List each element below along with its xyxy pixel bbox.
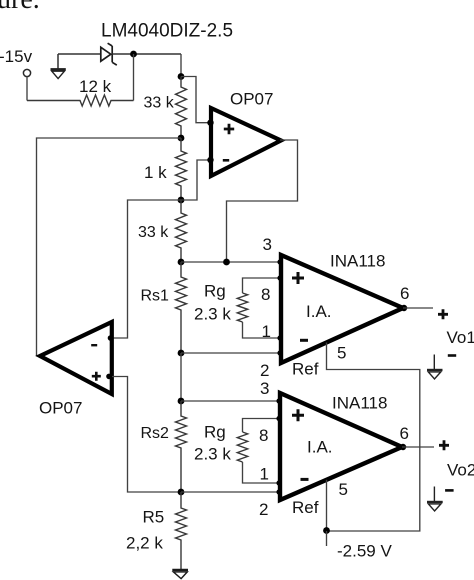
node dot bus/33k top [178, 73, 185, 80]
svg-text:INA118: INA118 [332, 394, 387, 413]
pin connection dots INA1 [277, 259, 282, 355]
wire INA1 pin 8 to Rg [243, 278, 282, 293]
svg-text:Vo2: Vo2 [447, 461, 474, 480]
node dot 33k/1k junction [178, 135, 185, 142]
svg-text:Vo1: Vo1 [447, 328, 474, 347]
wire bus segment 353-401 [180, 353, 182, 401]
pin connection dots INA2 [276, 398, 281, 494]
node dot Rs2/R5 junction [178, 489, 185, 496]
wire ground to diode anode [58, 53, 101, 55]
svg-text:1: 1 [260, 465, 269, 484]
wire node to INA118 #2 pin 2 [181, 491, 280, 493]
zener diode LM4040DIZ-2.5 [101, 43, 117, 65]
junction dot feedback/pin3 wire [223, 259, 230, 266]
svg-text:Ref: Ref [292, 360, 319, 379]
instrumentation amp U4 INA118 (lower) [280, 393, 402, 500]
node dot OP07 + input [207, 120, 213, 126]
node dot 1k/33k junction [178, 197, 185, 204]
svg-text:33 k: 33 k [138, 224, 169, 241]
svg-text:2,2 k: 2,2 k [126, 534, 163, 553]
wire Rg to INA1 pin 1 [243, 322, 282, 338]
wire feedback node to left OP07 output [37, 138, 182, 356]
plus sign INA1 [292, 272, 304, 284]
svg-text:Rs1: Rs1 [141, 288, 170, 305]
svg-text:-15v: -15v [0, 47, 33, 66]
svg-text:R5: R5 [143, 508, 165, 527]
ground (Vo2) [427, 487, 443, 512]
svg-text:ure.: ure. [0, 0, 40, 15]
svg-text:2: 2 [260, 361, 269, 380]
wire from -15v terminal down [26, 77, 28, 101]
terminal -15v circle [23, 69, 30, 76]
wire node to INA118 #1 pin 3 [181, 261, 281, 263]
instrumentation amp U2 INA118 (upper) [281, 255, 403, 363]
resistor Rg 2.3 k (lower) [237, 432, 247, 462]
plus sign OP07 top [224, 124, 234, 134]
svg-text:-2.59 V: -2.59 V [337, 542, 392, 561]
wire INA1 pin5/Ref down [327, 343, 420, 532]
ground (bottom, R5) [172, 570, 188, 579]
svg-text:LM4040DIZ-2.5: LM4040DIZ-2.5 [101, 21, 233, 42]
svg-text:6: 6 [400, 424, 409, 443]
wire OP07 output feedback loop [227, 140, 298, 262]
node dot bus/Rs1 top [178, 259, 185, 266]
minus terminal Vo1 [448, 354, 456, 357]
wire INA1 output to Vo1 [403, 307, 433, 309]
node dot Rs1 bottom [178, 350, 185, 357]
resistor Rs2 [176, 401, 187, 492]
svg-text:OP07: OP07 [39, 399, 82, 418]
op-amp U3 OP07 (left, pointing left) [40, 322, 112, 394]
svg-text:6: 6 [400, 284, 409, 303]
node dot INA1 output [401, 305, 407, 311]
node dot OP07 left - input [108, 335, 114, 341]
minus sign INA2 [301, 478, 309, 481]
node dot OP07 - input [207, 157, 213, 163]
resistor Rs1 [176, 262, 187, 353]
op-amp U1 OP07 (top) [211, 108, 281, 176]
svg-text:3: 3 [263, 235, 272, 254]
plus sign INA2 [292, 409, 304, 421]
junction dot Ref net [323, 527, 330, 534]
junction dot diode/12k node [130, 51, 137, 58]
resistor 33 k (lower) [176, 200, 187, 262]
svg-text:5: 5 [339, 480, 348, 499]
ground (Vo1) [427, 355, 443, 380]
plus sign OP07 left [92, 372, 101, 381]
wire diode cathode to junction [112, 53, 181, 55]
resistor R5 [176, 492, 187, 569]
wire node to INA118 #2 pin 3 [181, 400, 280, 402]
wire node left to left OP07 - input [112, 200, 181, 338]
wire top bus corner down [180, 54, 182, 77]
wire INA2 output to Vo2 [402, 446, 434, 448]
plus terminal Vo2 [439, 440, 449, 450]
svg-text:33 k: 33 k [144, 95, 175, 112]
resistor 1 k [176, 138, 187, 200]
plus terminal Vo1 [438, 309, 448, 319]
resistor Rg 2.3 k (upper) [237, 293, 247, 322]
node dot INA2 output [400, 444, 406, 450]
svg-text:3: 3 [260, 379, 269, 398]
wire stub to -2.59 V [326, 531, 328, 546]
svg-text:8: 8 [261, 285, 270, 304]
wire Rg to INA2 pin 1 [243, 462, 281, 483]
svg-text:Ref: Ref [292, 498, 319, 517]
wire node to INA118 #1 pin 2 [181, 352, 281, 354]
node dot Rs2 top [178, 398, 185, 405]
resistor 33 k (upper) [176, 77, 187, 139]
svg-text:2: 2 [259, 500, 268, 519]
wire INA2 pin5/Ref down [326, 480, 328, 531]
minus sign INA1 [300, 339, 308, 342]
svg-text:INA118: INA118 [330, 252, 385, 271]
wire node to OP07 + input [181, 77, 211, 123]
svg-text:1 k: 1 k [144, 163, 167, 182]
node dot OP07 left + input [106, 374, 112, 380]
svg-text:2.3 k: 2.3 k [194, 445, 231, 464]
svg-text:Rg: Rg [204, 282, 226, 301]
wire OP07 left + input to node [112, 377, 181, 493]
svg-text:5: 5 [337, 344, 346, 363]
wire INA2 pin 8 to Rg [243, 419, 281, 433]
svg-text:12 k: 12 k [79, 77, 112, 96]
svg-text:Rg: Rg [204, 423, 226, 442]
svg-text:2.3 k: 2.3 k [194, 305, 231, 324]
minus sign OP07 left [91, 344, 97, 346]
svg-text:Rs2: Rs2 [141, 425, 170, 442]
svg-text:OP07: OP07 [230, 90, 273, 109]
resistor 12 k (horizontal) [27, 95, 134, 106]
ground (top left) [51, 54, 66, 79]
wire junction down to 12k [133, 54, 135, 101]
wire node to OP07 - input [181, 160, 211, 200]
svg-text:I.A.: I.A. [306, 302, 332, 321]
svg-text:1: 1 [262, 322, 271, 341]
minus sign OP07 top [223, 159, 229, 162]
svg-text:I.A.: I.A. [307, 438, 333, 457]
minus terminal Vo2 [445, 489, 454, 492]
svg-text:8: 8 [259, 426, 268, 445]
